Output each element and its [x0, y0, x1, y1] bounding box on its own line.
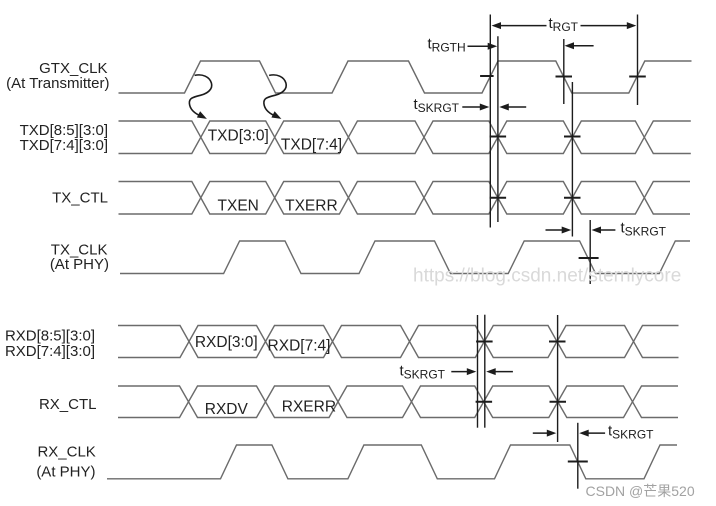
measurement line B (TXD/TX_CTL transition) — [497, 36, 499, 222]
tick TX_CLK falling edge at line F — [579, 257, 599, 259]
waveform RX_CLK (clock at PHY) — [107, 445, 677, 479]
svg-text:RX_CTL: RX_CTL — [39, 396, 97, 413]
arrow t_SKRGT TX_CTL pointing left at line F — [599, 229, 615, 231]
tick GTX rising edge at line A — [480, 75, 494, 77]
measurement line J (RX_CLK falling edge) — [577, 423, 579, 489]
tick TXD crossing at line E — [564, 136, 581, 138]
tick GTX rising edge at line D — [629, 76, 646, 78]
svg-text:(At PHY): (At PHY) — [50, 256, 109, 273]
arrow t_RGT left half — [499, 25, 547, 27]
tick RX_CLK falling edge at line J — [568, 461, 588, 463]
svg-text:RXDV: RXDV — [205, 401, 249, 418]
arrow t_SKRGT TX pointing left at line B — [507, 106, 526, 108]
waveform RXD bus — [118, 326, 679, 358]
tick RXD crossing at line I — [549, 341, 566, 343]
curved arrow: GTX_CLK rising edge to TXD[3:0] — [189, 75, 211, 115]
waveform TXD bus — [119, 121, 691, 154]
measurement line F (TX_CLK falling edge) — [589, 220, 591, 284]
svg-text:RXERR: RXERR — [282, 399, 336, 416]
tick TX_CTL crossing at line E — [564, 197, 581, 199]
svg-text:RXD[3:0]: RXD[3:0] — [195, 334, 258, 351]
svg-text:(At Transmitter): (At Transmitter) — [6, 75, 109, 92]
tick TXD crossing at line B — [490, 136, 507, 138]
svg-text:TXD[3:0]: TXD[3:0] — [208, 128, 269, 145]
arrow t_RGTH pointing right at line B — [468, 45, 490, 47]
svg-text:RXD[7:4]: RXD[7:4] — [268, 338, 331, 355]
svg-text:RX_CLK: RX_CLK — [37, 444, 95, 461]
svg-text:TXERR: TXERR — [285, 198, 338, 215]
arrow t_SKRGT RX_CLK pointing left at line J — [587, 432, 605, 434]
measurement line H (RXD/RX_CTL transition) — [484, 315, 486, 428]
curved arrow: GTX_CLK falling edge to TXD[7:4] — [264, 75, 286, 115]
tick RX_CTL crossing at line I — [550, 401, 567, 403]
arrow t_RGTH companion pointing left at line C — [572, 45, 594, 47]
svg-text:RXD[7:4][3:0]: RXD[7:4][3:0] — [5, 343, 95, 360]
waveform RX_CTL bus — [118, 386, 678, 418]
svg-text:TXD[7:4][3:0]: TXD[7:4][3:0] — [20, 137, 108, 154]
arrow t_SKRGT TX pointing right at line A — [462, 106, 482, 108]
tick RX_CTL crossing at line H — [476, 401, 493, 403]
svg-text:TXEN: TXEN — [218, 198, 259, 215]
arrow t_SKRGT RX pointing left at line H — [494, 371, 513, 373]
svg-text:https://blog.csdn.net/sternlyc: https://blog.csdn.net/sternlycore — [413, 266, 681, 287]
tick TX_CTL crossing at line B — [490, 197, 507, 199]
measurement line D (GTX next rising edge, t_RGT right) — [637, 15, 639, 106]
waveform TX_CTL bus — [119, 182, 691, 215]
svg-text:CSDN @芒果520: CSDN @芒果520 — [586, 483, 695, 499]
waveform GTX_CLK (clock at transmitter) — [119, 61, 692, 93]
measurement line A (GTX rising edge, t_RGT left) — [489, 15, 491, 228]
tick RXD crossing at line H — [476, 341, 493, 343]
waveform TX_CLK (clock at PHY) — [120, 241, 690, 274]
measurement line C (GTX falling edge) — [563, 39, 565, 104]
arrow t_SKRGT RX pointing right at line G — [451, 371, 469, 373]
measurement line E (second TXD/TX_CTL transition) — [571, 82, 573, 237]
svg-text:TX_CTL: TX_CTL — [52, 190, 108, 207]
measurement line I (second RXD/RX_CTL transition) — [557, 315, 559, 442]
arrow t_RGT right half — [581, 25, 629, 27]
measurement line G (RX skew left) — [477, 315, 479, 428]
svg-text:TXD[7:4]: TXD[7:4] — [281, 137, 342, 154]
arrow t_SKRGT RX_CLK pointing right at line I — [533, 432, 549, 434]
arrow t_SKRGT TX_CTL pointing right at line E — [546, 229, 564, 231]
tick GTX falling edge at line C — [556, 76, 573, 78]
svg-text:(At PHY): (At PHY) — [36, 464, 95, 481]
